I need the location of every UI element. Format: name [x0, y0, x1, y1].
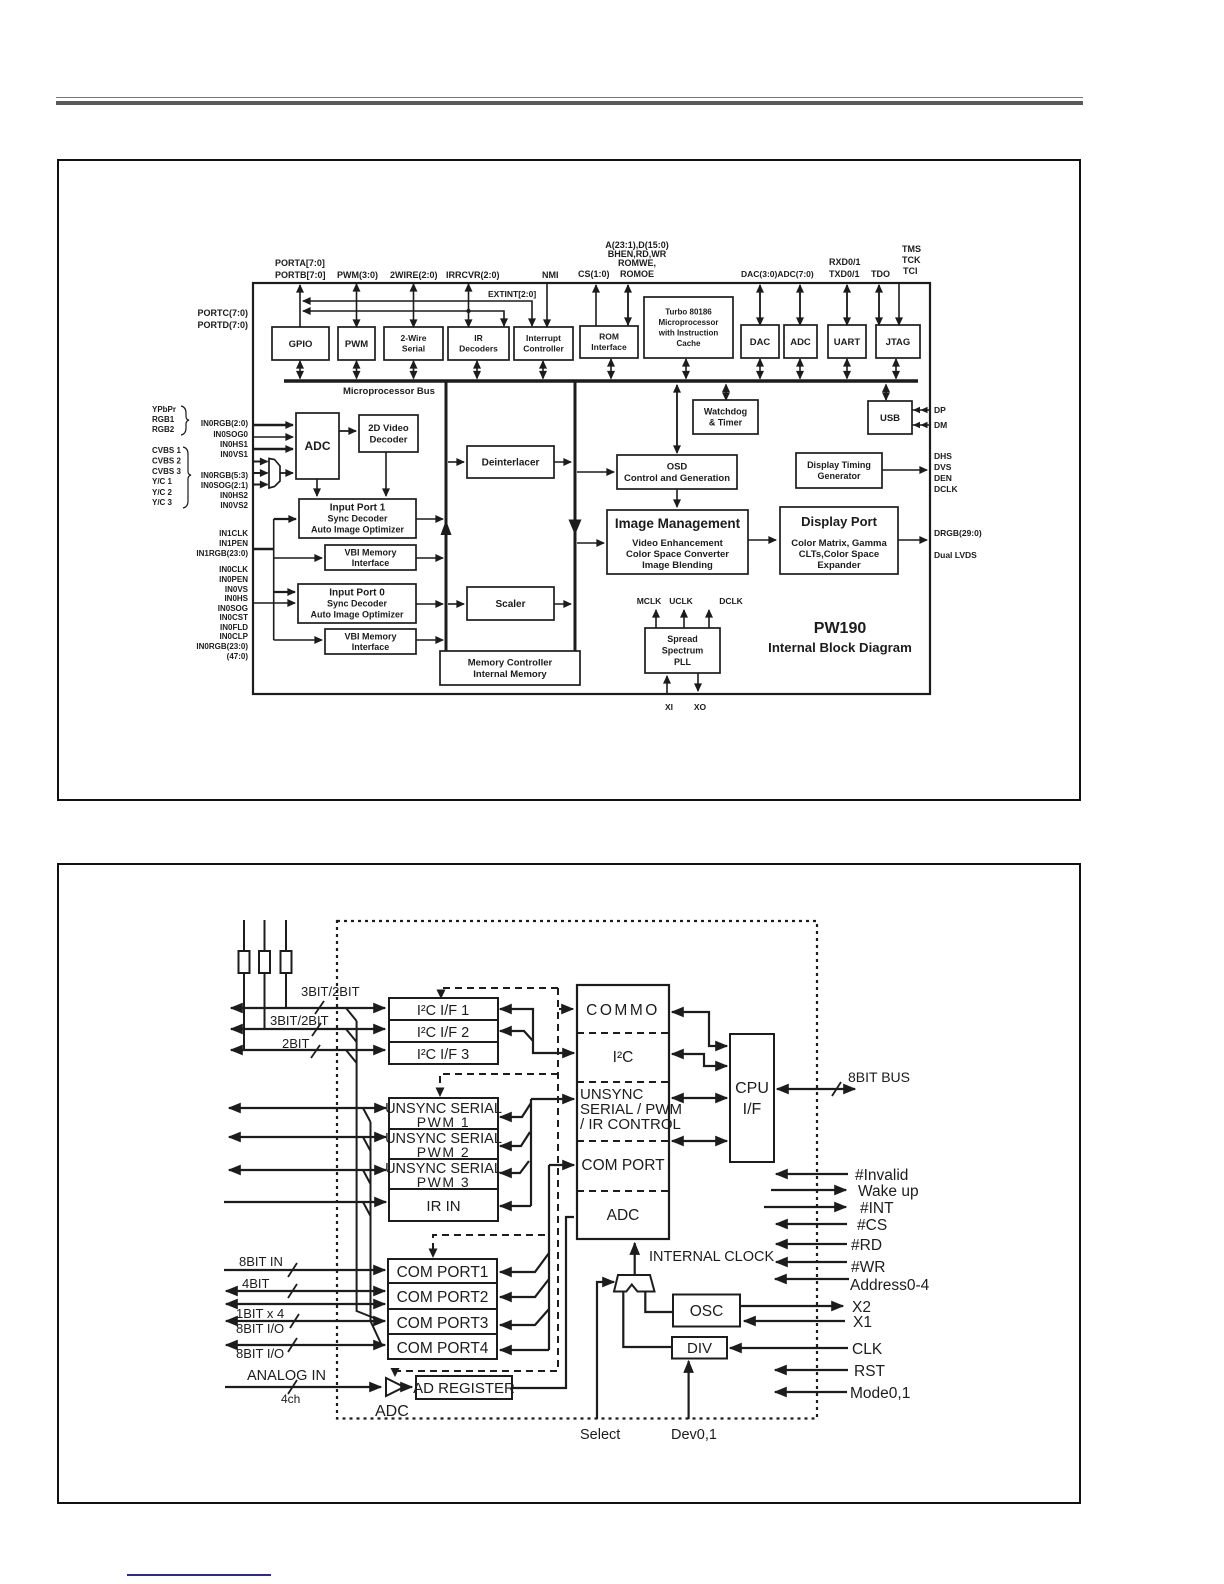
wire ANALOG IN pin — [225, 1386, 381, 1388]
svg-text:Microprocessor: Microprocessor — [658, 318, 718, 327]
wire ADC to AD REGISTER — [404, 1386, 412, 1388]
wire 2-Wire to microprocessor bus — [413, 361, 415, 379]
wire pullup 1 tail — [243, 973, 245, 1050]
svg-text:3BIT/2BIT: 3BIT/2BIT — [301, 984, 360, 999]
resistor R3 — [281, 951, 292, 973]
wire feeder A vertical — [357, 1021, 382, 1321]
svg-text:IN1RGB(23:0): IN1RGB(23:0) — [196, 549, 248, 558]
svg-text:Memory Controller: Memory Controller — [468, 658, 553, 669]
svg-text:Interface: Interface — [352, 642, 390, 652]
svg-text:RST: RST — [854, 1363, 886, 1380]
PW190 chip outline — [253, 283, 930, 694]
block VBI Memory Interface 1 — [325, 545, 416, 570]
svg-text:Spectrum: Spectrum — [662, 646, 704, 656]
slash I2C bus 3 — [311, 1045, 320, 1058]
svg-text:RGB1: RGB1 — [152, 415, 175, 424]
wire I2C bus 2 — [231, 1028, 385, 1030]
wire mux to internal clock — [634, 1243, 636, 1275]
block JTAG — [876, 325, 920, 358]
svg-text:ADC: ADC — [607, 1207, 640, 1224]
wire Select input — [597, 1282, 614, 1419]
wire CS(1:0) to border — [595, 285, 597, 326]
svg-text:Interrupt: Interrupt — [526, 333, 561, 343]
wire VBI 0 out — [416, 639, 443, 641]
wire CVBS input 1 — [252, 461, 268, 463]
svg-text:IN0SOG0: IN0SOG0 — [213, 430, 248, 439]
wire CVBS input 2 — [252, 472, 268, 474]
pin #WR — [776, 1261, 847, 1263]
svg-text:IN0RGB(5:3): IN0RGB(5:3) — [201, 471, 248, 480]
svg-text:IN0VS1: IN0VS1 — [220, 450, 248, 459]
wire ROM bus pins down — [627, 285, 629, 325]
wire UNSYNC branch 2 — [500, 1132, 530, 1146]
wire I2C join 3 — [346, 1050, 357, 1063]
wire AD REGISTER to ADC row — [512, 1217, 574, 1388]
svg-text:Microprocessor Bus: Microprocessor Bus — [343, 386, 435, 397]
svg-text:2BIT: 2BIT — [282, 1036, 310, 1051]
svg-text:IN0FLD: IN0FLD — [220, 623, 248, 632]
svg-text:COM PORT2: COM PORT2 — [397, 1289, 489, 1306]
wire XO — [697, 673, 699, 691]
wire COM PORT branch 4 — [500, 1349, 549, 1351]
wire Input Port 0 out — [416, 603, 443, 605]
svg-text:CS(1:0): CS(1:0) — [578, 269, 610, 279]
pin CLK — [730, 1347, 848, 1349]
wire UNSYNC row in — [531, 1098, 574, 1100]
pin Mode0,1 — [775, 1391, 847, 1393]
slash I2C bus 1 — [315, 1001, 324, 1014]
wire I2C IF1 feedback — [500, 1009, 574, 1053]
wire I2C to CPU — [672, 1054, 727, 1066]
wire Interrupt Ctrl to microprocessor bus — [542, 361, 544, 379]
svg-text:CVBS 2: CVBS 2 — [152, 457, 181, 466]
svg-text:IN0HS2: IN0HS2 — [220, 491, 249, 500]
svg-text:CVBS 3: CVBS 3 — [152, 467, 181, 476]
wire CVBS input 3 — [252, 484, 268, 486]
svg-text:ADC: ADC — [305, 439, 331, 453]
svg-text:XI: XI — [665, 702, 673, 712]
svg-text:8BIT BUS: 8BIT BUS — [848, 1069, 910, 1085]
svg-text:USB: USB — [880, 413, 900, 424]
brace CVBS group — [183, 447, 191, 508]
block Spread Spectrum PLL — [645, 628, 720, 673]
slash 4BIT — [288, 1284, 297, 1298]
svg-text:2WIRE(2:0): 2WIRE(2:0) — [390, 270, 438, 280]
slash I2C bus 2 — [312, 1023, 321, 1036]
block Deinterlacer — [467, 446, 554, 478]
wire feeder to Input Port 0 — [274, 591, 295, 593]
svg-text:VBI Memory: VBI Memory — [344, 631, 396, 641]
wire 2D Video Decoder to Input Port 1 — [385, 452, 387, 496]
svg-text:MCLK: MCLK — [637, 596, 662, 606]
svg-text:COM PORT1: COM PORT1 — [397, 1264, 489, 1281]
wire I2C join 1 — [346, 1008, 357, 1021]
svg-text:DRGB(29:0): DRGB(29:0) — [934, 528, 982, 538]
svg-text:Sync Decoder: Sync Decoder — [327, 599, 388, 609]
wire Turbo 80186 to microprocessor bus — [685, 359, 687, 379]
wire 8BIT I/O pin a — [226, 1320, 385, 1322]
wire OSD to Image Management — [676, 489, 678, 507]
wire IN0HS1 input — [252, 448, 293, 450]
svg-text:Address0-4: Address0-4 — [850, 1277, 930, 1294]
wire 1BITx4 pin — [226, 1303, 385, 1305]
wire DAC pins down — [759, 285, 761, 325]
block Scaler — [467, 587, 554, 620]
svg-text:DM: DM — [934, 420, 947, 430]
wire mux input from OSC — [645, 1292, 673, 1313]
block 2D Video Decoder — [359, 415, 418, 452]
svg-text:TCK: TCK — [902, 255, 921, 265]
block 2-Wire Serial — [384, 327, 443, 360]
wire JTAG to microprocessor bus — [895, 359, 897, 379]
slash ANALOG IN — [288, 1380, 297, 1394]
wire serial join 4 — [363, 1202, 371, 1216]
wire VBI 1 out — [416, 557, 443, 559]
wire UNSYNC branch IR — [500, 1205, 531, 1207]
wire I2C IF2 branch — [500, 1031, 533, 1041]
svg-text:TMS: TMS — [902, 244, 921, 254]
wire serial pin 3 — [229, 1169, 386, 1171]
wire UNSYNC branch 3 — [500, 1161, 529, 1173]
block DAC — [741, 325, 779, 358]
wire PLL MCLK — [655, 610, 657, 628]
wire USB DP — [912, 407, 929, 413]
svg-text:PORTA[7:0]: PORTA[7:0] — [275, 258, 325, 268]
svg-text:1BIT x 4: 1BIT x 4 — [236, 1306, 284, 1321]
svg-text:PORTD(7:0): PORTD(7:0) — [197, 320, 248, 330]
wire serial join 1 — [363, 1108, 371, 1122]
block register file (COMMO/I2C/UNSYNC/COM PORT/ADC) — [577, 985, 682, 1239]
wire USB DM — [912, 422, 929, 428]
pin X1 — [744, 1320, 845, 1322]
svg-text:/ IR CONTROL: / IR CONTROL — [580, 1116, 681, 1133]
block UART — [828, 325, 866, 358]
dashed control to I2C stack — [441, 988, 558, 994]
wire EXTINT line 1 — [303, 301, 532, 326]
wire mux to ADC — [280, 472, 293, 474]
pin Address0-4 — [775, 1278, 849, 1280]
svg-text:Internal Block Diagram: Internal Block Diagram — [768, 640, 912, 655]
wire serial join 2 — [363, 1137, 371, 1151]
svg-text:IN0VS: IN0VS — [225, 585, 249, 594]
svg-text:#CS: #CS — [857, 1217, 887, 1234]
svg-text:DIV: DIV — [687, 1340, 712, 1357]
wire serial join 3 — [363, 1170, 371, 1184]
wire 8BIT I/O pin b — [226, 1344, 385, 1346]
wire bus to USB — [885, 385, 887, 401]
svg-text:ADC: ADC — [790, 337, 811, 348]
svg-text:PWM 2: PWM 2 — [417, 1144, 470, 1160]
svg-text:Image Blending: Image Blending — [642, 560, 713, 571]
svg-text:DAC: DAC — [750, 337, 771, 348]
wire 8BIT BUS — [777, 1088, 855, 1090]
svg-text:Expander: Expander — [817, 560, 861, 571]
wire control to COMMO — [559, 1008, 573, 1010]
block COM PORT stack — [388, 1259, 497, 1359]
wire pullup 2 upper — [264, 920, 266, 951]
block OSC — [673, 1295, 740, 1327]
svg-text:#Invalid: #Invalid — [855, 1167, 908, 1184]
svg-text:#RD: #RD — [851, 1237, 882, 1254]
wire COM PORT row in — [549, 1164, 574, 1166]
frame 1 border — [57, 159, 1081, 801]
dashed control to UNSYNC stack — [440, 1074, 558, 1090]
wire bus to Watchdog — [725, 385, 727, 401]
wire IRRCVR pins — [468, 284, 470, 290]
wire memory bus right vertical — [574, 381, 577, 651]
svg-text:DCLK: DCLK — [719, 596, 743, 606]
wire bus to OSD down — [676, 385, 678, 453]
wire PORTA/B to GPIO — [299, 285, 301, 327]
svg-text:IN0CLP: IN0CLP — [220, 632, 249, 641]
wire to Deinterlacer — [448, 461, 464, 463]
svg-text:Scaler: Scaler — [495, 599, 525, 610]
svg-text:Serial: Serial — [402, 344, 425, 354]
bottom footnote blue rule — [127, 1574, 271, 1576]
wire UNSYNC to CPU — [672, 1097, 727, 1099]
svg-text:IN0CLK: IN0CLK — [219, 565, 248, 574]
svg-text:PWM: PWM — [345, 339, 368, 350]
slash 8BIT I/O b — [288, 1338, 297, 1352]
block Interrupt Controller — [514, 327, 573, 360]
block USB — [868, 401, 912, 434]
svg-text:PW190: PW190 — [814, 620, 867, 637]
svg-text:ADC: ADC — [375, 1403, 409, 1420]
svg-text:& Timer: & Timer — [709, 418, 743, 428]
svg-text:Y/C 1: Y/C 1 — [152, 477, 173, 486]
mux clock select — [614, 1275, 655, 1292]
svg-text:Decoders: Decoders — [459, 344, 498, 354]
svg-text:IN0RGB(2:0): IN0RGB(2:0) — [201, 419, 248, 428]
wire PWM to box — [356, 285, 358, 327]
svg-text:Color Space Converter: Color Space Converter — [626, 549, 729, 560]
block Display Port — [780, 507, 898, 574]
svg-text:JTAG: JTAG — [886, 337, 911, 348]
svg-text:NMI: NMI — [542, 270, 559, 280]
wire UNSYNC branch 1 — [500, 1103, 531, 1117]
wire EXTINT line 2 — [303, 311, 504, 326]
svg-text:Interface: Interface — [591, 342, 627, 352]
block ADC peripheral — [784, 325, 817, 358]
wire Deinterlacer out — [554, 461, 571, 463]
block Display Timing Generator — [796, 453, 882, 488]
svg-text:XO: XO — [694, 702, 707, 712]
svg-text:I²C I/F 3: I²C I/F 3 — [417, 1047, 469, 1063]
wire NMI to Interrupt Controller — [546, 284, 548, 327]
svg-text:ROM: ROM — [599, 332, 619, 342]
svg-text:DP: DP — [934, 405, 946, 415]
svg-text:Internal Memory: Internal Memory — [473, 669, 547, 680]
slash 8BIT BUS — [832, 1082, 841, 1096]
wire I2C join 2 — [346, 1029, 357, 1042]
svg-text:COM PORT: COM PORT — [581, 1157, 665, 1174]
svg-text:CLTs,Color Space: CLTs,Color Space — [799, 549, 879, 560]
svg-text:INTERNAL CLOCK: INTERNAL CLOCK — [649, 1249, 774, 1265]
svg-text:Generator: Generator — [817, 471, 861, 481]
resistor R1 — [239, 951, 250, 973]
svg-text:Image Management: Image Management — [615, 516, 741, 531]
wire pullup 3 tail — [285, 973, 287, 1008]
svg-text:CPU: CPU — [735, 1080, 769, 1097]
svg-text:Select: Select — [580, 1427, 620, 1443]
arrowhead control ADC — [391, 1368, 400, 1377]
wire Dev0,1 input — [687, 1361, 689, 1419]
block Image Management — [607, 510, 748, 574]
svg-text:2D Video: 2D Video — [368, 423, 409, 434]
wire ADC to microprocessor bus — [799, 359, 801, 379]
block ROM Interface — [580, 326, 638, 358]
brace YPbPr group — [181, 406, 189, 435]
block UNSYNC SERIAL PWM stack — [385, 1098, 502, 1221]
wire to Image Management — [577, 542, 604, 544]
svg-text:UART: UART — [834, 337, 861, 348]
svg-text:Control and Generation: Control and Generation — [624, 473, 730, 484]
wire DAC to microprocessor bus — [759, 359, 761, 379]
wire serial pin 2 — [229, 1136, 386, 1138]
svg-text:8BIT I/O: 8BIT I/O — [236, 1321, 284, 1336]
svg-text:Display Port: Display Port — [801, 514, 878, 529]
svg-text:Sync Decoder: Sync Decoder — [327, 514, 388, 524]
svg-text:TXD0/1: TXD0/1 — [829, 269, 860, 279]
wire pullup 3 upper — [285, 920, 287, 951]
wire I2C bus 3 — [231, 1049, 385, 1051]
svg-text:Wake up: Wake up — [858, 1183, 919, 1200]
wire XI — [666, 676, 668, 694]
wire COM PORT branch 2 — [500, 1279, 549, 1297]
svg-text:Input Port 1: Input Port 1 — [330, 503, 386, 514]
wire COM PORT branch vertical — [548, 1165, 550, 1350]
wire ROM bus pins up — [627, 285, 629, 326]
svg-text:IN0SOG(2:1): IN0SOG(2:1) — [201, 481, 248, 490]
svg-text:PORTB[7:0]: PORTB[7:0] — [275, 270, 326, 280]
wire TMS/TCK/TCI to JTAG — [898, 284, 900, 325]
svg-text:IN0HS: IN0HS — [224, 594, 248, 603]
junction EXTINT/IRRCVR — [466, 309, 470, 313]
top header double rule — [56, 97, 1083, 98]
block DIV — [672, 1337, 727, 1359]
pin #Invalid — [776, 1173, 848, 1175]
svg-text:IR IN: IR IN — [426, 1198, 460, 1215]
svg-text:PWM 3: PWM 3 — [417, 1174, 470, 1190]
svg-text:DAC(3:0)ADC(7:0): DAC(3:0)ADC(7:0) — [741, 269, 814, 279]
wire IN0 input — [252, 602, 295, 604]
svg-text:EXTINT[2:0]: EXTINT[2:0] — [488, 289, 536, 299]
wire Display Port to DRGB — [898, 539, 927, 541]
microprocessor bus — [284, 379, 918, 383]
svg-text:Interface: Interface — [352, 558, 390, 568]
wire Scaler out — [554, 603, 571, 605]
wire UART pins — [846, 285, 848, 325]
svg-text:Mode0,1: Mode0,1 — [850, 1385, 910, 1402]
svg-text:with Instruction: with Instruction — [658, 329, 719, 338]
pin X2 — [741, 1305, 843, 1307]
svg-text:Display Timing: Display Timing — [807, 460, 871, 470]
wire Image Management to Display Port — [748, 539, 776, 541]
wire Input Port 1 out — [416, 518, 443, 520]
wire feeder to VBI 1 — [274, 557, 322, 559]
pin Wake up — [771, 1189, 846, 1191]
slash 8BIT IN — [288, 1263, 297, 1277]
wire PWM pins — [356, 284, 358, 290]
svg-text:ROMWE,: ROMWE, — [618, 258, 656, 268]
svg-text:IN1PEN: IN1PEN — [219, 539, 248, 548]
svg-text:YPbPr: YPbPr — [152, 405, 176, 414]
svg-text:I²C: I²C — [613, 1049, 634, 1066]
wire to OSD — [577, 471, 614, 473]
svg-text:Y/C 2: Y/C 2 — [152, 488, 173, 497]
svg-text:IN0RGB(23:0): IN0RGB(23:0) — [196, 642, 248, 651]
wire ROM Interface to microprocessor bus — [610, 359, 612, 379]
svg-text:GPIO: GPIO — [289, 339, 313, 350]
svg-text:UCLK: UCLK — [669, 596, 693, 606]
block Memory Controller — [440, 651, 580, 685]
svg-text:Cache: Cache — [676, 339, 701, 348]
block I2C I/F stack — [389, 998, 498, 1064]
amplifier ADC — [386, 1378, 404, 1396]
svg-text:DVS: DVS — [934, 462, 952, 472]
svg-text:CLK: CLK — [852, 1341, 883, 1358]
svg-text:Watchdog: Watchdog — [704, 407, 747, 417]
wire UNSYNC branch vertical — [530, 1099, 532, 1206]
wire TDO pin — [878, 285, 880, 325]
slash 8BIT I/O a — [290, 1314, 299, 1328]
svg-text:OSD: OSD — [667, 462, 688, 473]
svg-text:COMMO: COMMO — [586, 1002, 660, 1019]
wire COM PORT row to CPU — [672, 1140, 727, 1142]
wire left feeder vertical — [273, 519, 275, 640]
svg-text:Input Port 0: Input Port 0 — [329, 588, 385, 599]
svg-text:COM PORT3: COM PORT3 — [397, 1315, 489, 1332]
resistor R2 — [259, 951, 270, 973]
wire mux input from DIV — [623, 1292, 672, 1348]
wire feeder to Input Port 1 — [274, 518, 296, 520]
wire memory bus left vertical — [445, 381, 448, 651]
wire PLL DCLK — [708, 610, 710, 628]
svg-text:4ch: 4ch — [281, 1392, 300, 1406]
svg-text:I²C I/F 2: I²C I/F 2 — [417, 1025, 469, 1041]
wire COM PORT branch 1 — [500, 1253, 549, 1272]
wire ADC pins down — [799, 285, 801, 325]
svg-text:RXD0/1: RXD0/1 — [829, 257, 861, 267]
svg-text:IN1CLK: IN1CLK — [219, 529, 248, 538]
block Turbo 80186 microprocessor U1 — [644, 297, 733, 358]
svg-text:IRRCVR(2:0): IRRCVR(2:0) — [446, 270, 500, 280]
arrowhead control I2C — [437, 990, 446, 1000]
wire GPIO to microprocessor bus — [299, 361, 301, 379]
pin #CS — [776, 1223, 847, 1225]
svg-text:I/F: I/F — [743, 1101, 762, 1118]
svg-text:X1: X1 — [853, 1314, 872, 1331]
svg-text:VBI Memory: VBI Memory — [344, 547, 396, 557]
svg-text:Video Enhancement: Video Enhancement — [632, 538, 723, 549]
mux analog input select — [269, 459, 280, 489]
svg-text:IN0SOG: IN0SOG — [218, 604, 248, 613]
wire serial pin 1 — [229, 1107, 386, 1109]
svg-text:Auto Image Optimizer: Auto Image Optimizer — [311, 525, 405, 535]
wire PLL UCLK — [683, 610, 685, 628]
dashed control to COM PORT stack — [433, 1235, 545, 1252]
svg-text:#WR: #WR — [851, 1259, 885, 1276]
wire IR IN pin — [224, 1201, 386, 1203]
svg-text:DHS: DHS — [934, 451, 952, 461]
svg-text:AD REGISTER: AD REGISTER — [413, 1380, 515, 1397]
svg-text:Dual LVDS: Dual LVDS — [934, 550, 977, 560]
wire to Scaler — [448, 603, 464, 605]
wire DAC pins — [759, 285, 761, 325]
svg-text:TDO: TDO — [871, 269, 890, 279]
wire IR Decoders to microprocessor bus — [476, 361, 478, 379]
block Input Port 0 Sync Decoder — [298, 584, 416, 623]
